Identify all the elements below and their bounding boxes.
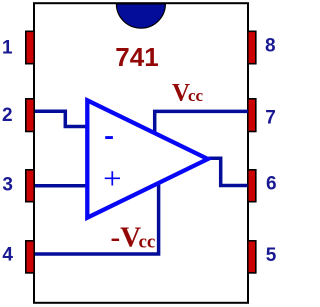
svg-text:4: 4 <box>2 245 13 266</box>
pin 3 <box>26 170 34 202</box>
pin 6 <box>248 170 256 202</box>
svg-text:5: 5 <box>266 245 277 266</box>
non-inverting input plus sign <box>105 171 120 185</box>
svg-text:3: 3 <box>2 175 13 196</box>
svg-text:8: 8 <box>265 36 276 57</box>
pin 4 <box>26 241 34 273</box>
svg-text:1: 1 <box>2 38 13 59</box>
pin 1 <box>26 31 34 63</box>
svg-text:-V: -V <box>111 221 142 253</box>
svg-text:741: 741 <box>115 42 158 72</box>
pin 7 <box>248 99 256 132</box>
wire pin2 to inverting input <box>35 111 88 126</box>
svg-text:7: 7 <box>265 108 276 129</box>
inverting input minus sign <box>105 136 113 139</box>
wire output to pin 6 <box>209 158 248 185</box>
op-amp U1 triangle <box>87 100 208 217</box>
pin 8 <box>248 31 256 63</box>
wire Vcc to pin 7 <box>155 111 248 132</box>
notch (pin-1 index semicircle) <box>116 4 165 28</box>
svg-text:2: 2 <box>2 105 13 126</box>
wire -Vcc to pin 4 <box>35 183 159 254</box>
IC body (DIP-8 package outline) <box>34 3 248 303</box>
pin 2 <box>26 99 34 132</box>
svg-text:cc: cc <box>139 231 156 252</box>
svg-text:6: 6 <box>266 174 277 195</box>
pin 5 <box>248 241 256 273</box>
wire pin3 to non-inverting input <box>35 184 88 188</box>
svg-text:cc: cc <box>188 86 204 105</box>
